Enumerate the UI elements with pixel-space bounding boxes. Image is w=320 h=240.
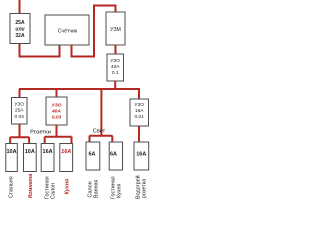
wire: bus drop to lighting group: [100, 89, 102, 136]
breaker "16А" Кухня (red): [60, 144, 73, 172]
svg-text:Кухня: Кухня: [117, 183, 123, 198]
svg-text:Комната: Комната: [28, 174, 34, 198]
svg-text:Розетки: Розетки: [30, 130, 51, 136]
svg-text:УЗО: УЗО: [14, 102, 24, 108]
svg-text:10А: 10А: [25, 149, 35, 155]
svg-text:32А: 32А: [15, 33, 25, 39]
svg-text:16А: 16А: [43, 149, 53, 155]
svg-text:25А: 25А: [15, 20, 25, 26]
svg-text:или: или: [15, 27, 24, 33]
svg-text:Кухня: Кухня: [65, 178, 71, 195]
svg-text:УЗО: УЗО: [110, 58, 120, 64]
RCD "УЗО 40А 0,1" (main): [107, 54, 124, 81]
wire: supply input from top: [19, 0, 21, 14]
svg-text:25А: 25А: [15, 108, 24, 114]
meter "Счетчик": [45, 15, 89, 45]
wire: bus drop to УЗО 40А (red): [56, 89, 58, 97]
svg-text:Салон: Салон: [51, 183, 57, 199]
wire: drop to light breaker Гостиная/Кухня: [111, 136, 113, 143]
svg-text:розетка: розетка: [142, 179, 148, 198]
wire: УЗО 25А feed to socket bus 1: [19, 124, 21, 137]
wire: drop to light breaker Салон/Ванная: [89, 136, 91, 143]
svg-text:6А: 6А: [110, 152, 117, 158]
wire: meter output up and over to УЗМ: [72, 6, 116, 57]
svg-text:16А: 16А: [61, 149, 71, 155]
wire: УЗМ to main RCD: [115, 45, 117, 54]
svg-text:УЗМ: УЗМ: [110, 27, 121, 33]
svg-text:0 03: 0 03: [15, 114, 25, 120]
wire: УЗО 40А feed to socket bus 2: [56, 125, 58, 137]
RCD "УЗО 40А 0,03" (sockets group 2, red): [46, 97, 67, 125]
wire: main RCD to distribution bus: [114, 81, 116, 88]
wire: drop to breaker Спальня: [9, 137, 11, 144]
svg-text:16А: 16А: [136, 152, 146, 158]
RCD "УЗО 25А 0,03" (sockets group 1): [12, 98, 28, 125]
breaker "16А" Гостиная/Салон: [41, 144, 54, 172]
wire: УЗО 16А to breaker Водогрей: [138, 126, 140, 142]
wire: bus drop to УЗО 25А: [19, 89, 21, 98]
svg-text:0,01: 0,01: [135, 114, 145, 120]
breaker "10А" Спальня: [6, 144, 17, 172]
svg-text:Свет: Свет: [93, 129, 106, 135]
wire: QF1 to meter input: [20, 44, 60, 57]
voltage monitor relay УЗМ: [106, 12, 125, 45]
RCD "УЗО 16А 0,01" (water heater): [130, 99, 149, 126]
svg-text:УЗО: УЗО: [134, 102, 144, 108]
svg-text:40А: 40А: [51, 109, 61, 115]
breaker QF1 "25А или 32А" (input breaker): [10, 14, 30, 44]
svg-text:Счётчик: Счётчик: [58, 29, 78, 35]
breaker "10А" Комната: [24, 144, 37, 172]
breaker "6А" Салон/Ванная (light): [86, 142, 100, 170]
svg-text:Ванная: Ванная: [94, 179, 100, 198]
wire: socket bus 1: [10, 136, 29, 138]
wire: main distribution bus: [19, 88, 140, 90]
svg-text:6А: 6А: [88, 152, 95, 158]
svg-text:Водогрей: Водогрей: [135, 175, 142, 199]
svg-text:16А: 16А: [135, 108, 144, 114]
breaker "16А" Водогрей розетка: [134, 142, 149, 170]
wire: socket bus 2: [45, 136, 72, 138]
svg-text:40А: 40А: [111, 64, 120, 70]
svg-text:УЗО: УЗО: [52, 103, 62, 109]
wire: lighting bus: [90, 135, 113, 137]
wire: drop to breaker Кухня: [71, 137, 73, 144]
svg-text:0.1: 0.1: [112, 70, 119, 76]
svg-text:Спальня: Спальня: [9, 176, 15, 198]
wire: bus drop to УЗО 16А: [138, 89, 140, 99]
breaker "6А" Гостиная/Кухня (light): [109, 142, 122, 170]
svg-text:10А: 10А: [6, 149, 16, 155]
wire: drop to breaker Гостиная/Салон: [44, 137, 46, 144]
svg-text:0,03: 0,03: [52, 115, 62, 121]
wire: drop to breaker Комната: [28, 137, 30, 144]
